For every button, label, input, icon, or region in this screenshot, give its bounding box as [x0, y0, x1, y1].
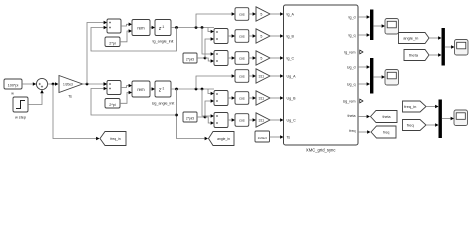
- svg-text:tg_rem: tg_rem: [344, 51, 355, 55]
- wire 100*pi to sum junction: [22, 83, 36, 85]
- unconnected output tg_rem: [360, 50, 363, 54]
- scope freq: [454, 110, 468, 126]
- svg-text:311: 311: [258, 74, 264, 78]
- wire into sum row Ug_B: [208, 89, 211, 94]
- wire mux to scope freq: [442, 118, 451, 120]
- constant block 100*pi (grid frequency): [4, 79, 22, 89]
- wire rem to unit delay 2: [150, 88, 152, 90]
- gain 5 row C: [256, 51, 270, 65]
- constant 1/20e3 sample time: [255, 131, 270, 142]
- wire cos to gain row C: [249, 57, 253, 59]
- wire branch up to cos row Ug_A: [196, 76, 232, 89]
- wire sum to rem 2: [121, 86, 129, 88]
- wire gain to subsystem row B: [270, 35, 280, 37]
- sum block tg (add increment): [107, 19, 121, 33]
- wire tg_q to mux: [358, 34, 367, 36]
- wire sum to cos row B: [228, 35, 232, 37]
- wire sum to cos row C: [228, 57, 232, 59]
- svg-text:Ts: Ts: [287, 136, 291, 140]
- step source block w step: [13, 97, 28, 112]
- wire cos to gain row Ug_B: [249, 97, 253, 99]
- svg-text:tg_C: tg_C: [287, 57, 295, 61]
- wire freq_in to mux: [426, 106, 435, 108]
- svg-text:cos: cos: [239, 118, 245, 122]
- svg-text:freq_in: freq_in: [404, 104, 416, 109]
- svg-text:angle_in: angle_in: [217, 137, 230, 141]
- sum block Ug (add increment): [107, 81, 121, 95]
- phase sum block row Ug_B: [214, 91, 228, 106]
- mux freq: [439, 100, 442, 139]
- svg-text:311: 311: [258, 118, 264, 122]
- wire 2*pi to rem 2: [120, 93, 129, 104]
- wire tg_d to mux: [358, 16, 367, 18]
- svg-text:cos: cos: [239, 74, 245, 78]
- cos block row Ug_B: [235, 92, 249, 105]
- From tag freq_in: [403, 101, 427, 112]
- svg-text:5: 5: [260, 34, 262, 38]
- svg-text:w step: w step: [15, 116, 26, 120]
- unit delay z-1 tg_angle_init: [155, 20, 171, 36]
- wire cos to gain row Ug_C: [249, 119, 253, 121]
- svg-text:Ug_B: Ug_B: [287, 97, 297, 101]
- wire cos to gain row B: [249, 35, 253, 37]
- svg-text:tg_d: tg_d: [349, 16, 356, 20]
- Goto tag freq: [371, 126, 396, 138]
- svg-text:freq: freq: [349, 129, 355, 133]
- wire 2*pi to rem: [120, 31, 129, 42]
- wire feedback Ug angle to sum: [91, 89, 177, 116]
- wire riser to top sum: [87, 23, 104, 85]
- svg-text:rem: rem: [137, 87, 145, 92]
- wire sum to cos row Ug_B: [228, 97, 232, 99]
- cos block row Ug_A: [235, 70, 249, 83]
- svg-text:2*pi: 2*pi: [109, 41, 116, 45]
- cos block row C: [235, 52, 249, 65]
- wire sum to gain Ts: [48, 83, 57, 85]
- wire Ug_q to mux: [358, 83, 367, 85]
- math function rem (mod 2*pi): [132, 20, 150, 36]
- wire 2*pi/3 to phase sums: [197, 57, 205, 59]
- svg-text:Ug_d: Ug_d: [347, 66, 356, 70]
- scope Ug_dq: [385, 70, 399, 86]
- unit delay z-1 Ug_angle_init: [155, 81, 171, 97]
- svg-text:2*pi: 2*pi: [109, 103, 116, 107]
- constant 2*pi: [105, 37, 120, 47]
- wire tg_angle main line: [171, 27, 214, 29]
- svg-text:theta: theta: [348, 114, 356, 118]
- subsystem XMC_grid_sync: [284, 5, 359, 145]
- svg-text:freq: freq: [407, 123, 414, 128]
- wire drop to angle_in goto: [177, 89, 205, 139]
- wire mux to scope Ug_dq: [373, 76, 381, 78]
- cos block row A: [235, 8, 249, 21]
- Goto tag theta: [371, 111, 398, 123]
- svg-text:theta: theta: [383, 115, 391, 119]
- gain 311 row Ug_C: [256, 113, 270, 127]
- svg-text:311: 311: [258, 96, 264, 100]
- constant 2*pi/3 top: [183, 53, 197, 63]
- sum junction circle: [36, 78, 47, 89]
- wire 1/20e3 to Ts port: [270, 136, 281, 138]
- scope theta: [455, 40, 469, 56]
- svg-text:tg_q: tg_q: [349, 34, 356, 38]
- unconnected output Ug_rem: [360, 99, 363, 103]
- svg-text:1/20e3: 1/20e3: [258, 136, 268, 140]
- svg-text:tg_angle_init: tg_angle_init: [153, 40, 174, 44]
- Goto tag angle_in: [209, 132, 235, 146]
- gain block Ts (1/20e3) triangle: [59, 76, 83, 93]
- wire gain output with branch to both angle chains: [83, 83, 108, 85]
- wire step to sum: [28, 92, 42, 105]
- From tag theta: [404, 50, 429, 61]
- wire feedback tg angle to sum: [91, 28, 177, 52]
- wire branch up to cos row A: [196, 14, 232, 28]
- wire angle_in to mux: [429, 37, 438, 39]
- mux Ug_dq: [370, 58, 373, 94]
- wire mux to scope tg_dq: [373, 25, 381, 27]
- svg-text:angle_in: angle_in: [403, 36, 418, 41]
- wire cos to gain row A: [249, 13, 253, 15]
- gain 5 row A: [256, 7, 270, 21]
- constant 2*pi/3 lower: [183, 112, 197, 122]
- gain 311 row Ug_A: [256, 69, 270, 83]
- wire theta to goto: [358, 116, 367, 118]
- phase sum block row B: [214, 29, 228, 44]
- svg-text:cos: cos: [239, 34, 245, 38]
- wire Ug_d to mux: [358, 66, 367, 68]
- wire Ug_angle main line: [171, 88, 214, 90]
- wire theta to mux: [429, 54, 438, 56]
- wire branch down to sum row C: [202, 28, 211, 55]
- wire gain to subsystem row Ug_C: [270, 119, 280, 121]
- From tag freq: [403, 120, 427, 131]
- phase sum block row Ug_C: [214, 113, 228, 128]
- wire 2*pi/3 lower to phase sums: [197, 116, 205, 118]
- svg-text:5: 5: [260, 12, 262, 16]
- wire gain to subsystem row C: [270, 57, 280, 59]
- wire gain to subsystem row Ug_B: [270, 97, 280, 99]
- svg-text:XMC_grid_sync: XMC_grid_sync: [306, 148, 336, 153]
- svg-text:freq_in: freq_in: [110, 137, 120, 141]
- svg-text:Ug_angle_init: Ug_angle_init: [152, 102, 175, 106]
- wire into sum row B: [208, 28, 211, 32]
- svg-text:cos: cos: [239, 12, 245, 16]
- svg-text:w: w: [11, 91, 14, 95]
- svg-text:Ug_q: Ug_q: [347, 83, 356, 87]
- wire sum to cos row Ug_C: [228, 119, 232, 121]
- constant 2*pi lower: [105, 99, 120, 109]
- svg-text:tg_A: tg_A: [287, 13, 295, 17]
- Goto tag freq_in: [100, 132, 126, 146]
- gain 311 row Ug_B: [256, 91, 270, 105]
- wire gain to subsystem row A: [270, 13, 280, 15]
- svg-text:cos: cos: [239, 96, 245, 100]
- svg-text:theta: theta: [409, 53, 419, 58]
- wire branch down to freq_in goto: [53, 84, 96, 139]
- wire rem to unit delay: [150, 27, 152, 29]
- svg-text:rem: rem: [137, 26, 145, 31]
- From tag angle_in: [399, 33, 430, 44]
- svg-text:Ts: Ts: [68, 95, 72, 99]
- math function rem 2: [132, 81, 150, 97]
- svg-text:tg_B: tg_B: [287, 35, 295, 39]
- phase sum block row C: [214, 51, 228, 66]
- svg-text:Ug_A: Ug_A: [287, 75, 297, 79]
- wire freq to goto: [358, 131, 367, 133]
- svg-text:5: 5: [260, 56, 262, 60]
- svg-text:1/20e3: 1/20e3: [63, 82, 73, 86]
- wire branch down to sum row Ug_C: [202, 89, 211, 116]
- wire mux to scope theta: [445, 46, 451, 48]
- svg-text:cos: cos: [239, 56, 245, 60]
- svg-text:Ug_C: Ug_C: [287, 119, 297, 123]
- gain 5 row B: [256, 29, 270, 43]
- wire gain to subsystem row Ug_A: [270, 75, 280, 77]
- mux tg_dq: [370, 10, 373, 41]
- svg-text:100*pi: 100*pi: [8, 84, 19, 88]
- scope tg_dq: [385, 19, 399, 35]
- wire freq to mux: [426, 124, 435, 126]
- cos block row Ug_C: [235, 114, 249, 127]
- wire cos to gain row Ug_A: [249, 75, 253, 77]
- mux theta: [442, 28, 445, 66]
- svg-text:2*pi/3: 2*pi/3: [186, 58, 194, 62]
- wire sum to rem: [121, 24, 129, 26]
- svg-text:Ug_rem: Ug_rem: [343, 100, 356, 104]
- svg-text:freq: freq: [383, 130, 389, 134]
- svg-text:2*pi/3: 2*pi/3: [186, 117, 194, 121]
- cos block row B: [235, 30, 249, 43]
